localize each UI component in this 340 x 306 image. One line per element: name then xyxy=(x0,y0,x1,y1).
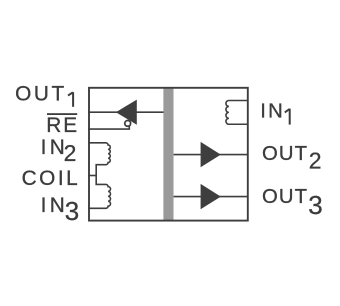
svg-text:COIL: COIL xyxy=(22,167,81,190)
svg-text:3: 3 xyxy=(65,196,79,226)
svg-text:OUT: OUT xyxy=(15,83,67,106)
svg-text:RE: RE xyxy=(46,114,79,137)
svg-text:OUT: OUT xyxy=(262,143,308,165)
svg-text:2: 2 xyxy=(64,140,77,166)
svg-text:3: 3 xyxy=(308,190,322,220)
svg-text:OUT: OUT xyxy=(262,186,308,208)
svg-text:2: 2 xyxy=(309,148,322,174)
svg-text:IN: IN xyxy=(260,101,285,123)
